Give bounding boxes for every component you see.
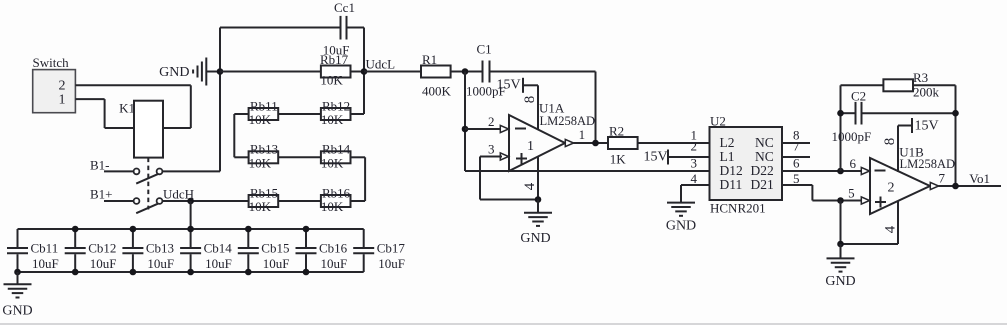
switch blade B1- (136, 174, 158, 184)
U1B output arrow pin 7 (930, 182, 938, 189)
wire left tie Rb11/Rb13 (233, 114, 235, 157)
U1A pin 2 input arrow (500, 125, 508, 132)
svg-text:400K: 400K (422, 84, 452, 99)
ground GND at U1B (840, 244, 842, 258)
svg-text:GND: GND (666, 219, 696, 234)
ground GND top-left (rotated, bars) (205, 58, 207, 86)
wire B1+ stub (104, 200, 134, 202)
U1A pin 3 input arrow (500, 153, 508, 160)
wire U1B pin8 to 15V (898, 125, 912, 127)
wire switch pin1 vertical down (104, 99, 106, 128)
wire row0: node A to Rb17 (220, 71, 321, 73)
junction bottom rail (303, 269, 310, 276)
capacitor Cb15 (247, 229, 249, 247)
wire capacitor bank bottom rail (18, 271, 364, 273)
svg-text:B1+: B1+ (90, 187, 113, 202)
wire switch pin1 horizontal (75, 98, 104, 100)
junction U1B non-inverting node (837, 197, 844, 204)
svg-text:15V: 15V (644, 150, 668, 165)
wire C2 left (841, 112, 855, 114)
wire U2 pin 6 to U1B pin 6 (782, 170, 862, 172)
svg-text:K1: K1 (119, 101, 135, 116)
wire Rb16 to right tie (351, 200, 366, 202)
wire right tie Rb14/Rb16 (364, 157, 366, 201)
svg-text:4: 4 (883, 225, 899, 233)
resistor Rb12 (321, 108, 351, 120)
wire Cc1 right (348, 27, 365, 29)
capacitor Cb11 (17, 229, 19, 247)
wire U1A pin 3 (480, 156, 502, 158)
wire R2 to U2 pin 1 (638, 142, 710, 144)
resistor R3 (883, 79, 913, 91)
wire B1+ to Rb15 (through UdcH) (162, 200, 248, 202)
svg-text:7: 7 (939, 171, 946, 186)
wire C2 right (863, 112, 956, 114)
svg-text:10K: 10K (321, 156, 344, 171)
svg-text:NC: NC (755, 149, 774, 164)
U1A minus sign (515, 128, 526, 130)
wire Rb13 to Rb14 (278, 156, 321, 158)
wire Rb11 to Rb12 (278, 113, 321, 115)
svg-text:2: 2 (488, 114, 495, 129)
junction node UdcL (361, 68, 368, 75)
switch contact B1- right circle (157, 169, 163, 175)
wire R3 to output column (912, 84, 955, 86)
svg-text:UdcL: UdcL (366, 57, 396, 72)
junction top rail (130, 226, 137, 233)
wire R1 to node B (451, 71, 482, 73)
wire C1 right to feedback column (491, 71, 596, 73)
U1B minus sign (875, 170, 886, 172)
U1B plus sign (875, 201, 886, 203)
wire Cc1 left (220, 27, 340, 29)
junction bottom rail (187, 269, 194, 276)
wire UdcL column (Cc1 down through UdcL to Rb12 row) (363, 28, 365, 115)
wire U1B plus column (bottom segment) (840, 201, 842, 245)
svg-text:Cb13: Cb13 (146, 241, 174, 256)
svg-text:5: 5 (848, 186, 855, 201)
U1A pin 4 stub (537, 157, 539, 200)
svg-text:Rb17: Rb17 (320, 52, 349, 67)
wire UdcL to R1 (364, 71, 421, 73)
wire GND to node A (206, 71, 220, 73)
switch blade B1+ (136, 203, 158, 213)
svg-text:Rb11: Rb11 (250, 98, 278, 113)
wire Rb12 to UdcL column (351, 113, 365, 115)
junction top rail (72, 226, 79, 233)
svg-text:200k: 200k (913, 85, 940, 100)
svg-text:NC: NC (755, 135, 774, 150)
junction U1B inverting node (837, 168, 844, 175)
svg-text:3: 3 (691, 156, 698, 171)
U1A pin 8 stub (537, 85, 539, 129)
svg-text:4: 4 (522, 182, 538, 190)
wire tie to Rb13 (234, 156, 248, 158)
op-amp U1A triangle (509, 115, 565, 171)
wire U2 pin 5 down (811, 185, 813, 201)
wire to K1 right pin (163, 127, 191, 129)
svg-text:15V: 15V (497, 78, 521, 93)
svg-text:10K: 10K (249, 112, 272, 127)
svg-text:D21: D21 (751, 177, 774, 192)
svg-text:UdcH: UdcH (163, 187, 194, 202)
wire U1A pin3 gnd horizontal (480, 199, 538, 201)
svg-text:1K: 1K (610, 152, 627, 167)
junction node B (R1/C1/U1A- ) (462, 68, 469, 75)
svg-text:B1-: B1- (90, 157, 110, 172)
op-amp U1B triangle (870, 158, 930, 214)
relay coil K1 box (134, 101, 163, 158)
svg-text:2: 2 (888, 181, 895, 196)
wire U1B pin 4 bottom horizontal (841, 243, 899, 245)
capacitor Cb12 (74, 229, 76, 247)
svg-text:8: 8 (522, 96, 538, 104)
svg-text:R2: R2 (609, 124, 624, 139)
U2 pin 7 stub (NC) (782, 156, 810, 158)
U1B pin 8 stub (897, 126, 899, 173)
svg-text:1: 1 (59, 92, 66, 107)
svg-text:GND: GND (159, 65, 189, 80)
junction node UdcH (187, 198, 194, 205)
wire Rb15 to Rb16 (278, 200, 321, 202)
wire B1- to node A column (162, 170, 220, 172)
junction bottom rail (14, 269, 21, 276)
U1B pin 6 input arrow (861, 167, 869, 174)
svg-text:Cb17: Cb17 (377, 241, 406, 256)
svg-text:10K: 10K (320, 73, 343, 88)
switch SW1 box (33, 70, 76, 113)
U1A plus sign (516, 158, 527, 160)
ground GND bottom-left (17, 272, 19, 284)
wire Rb14 right corner (351, 156, 366, 158)
wire capacitor bank top rail (18, 228, 364, 230)
junction top rail (303, 226, 310, 233)
wire tie to Rb11 (234, 113, 248, 115)
svg-text:2: 2 (691, 139, 698, 154)
power +15V symbol (U1B pin 8) (911, 118, 913, 133)
capacitor C1 (482, 61, 484, 83)
svg-text:L2: L2 (720, 135, 735, 150)
wire inverting net to U2 pin 3 (long horizontal) (465, 170, 710, 172)
U1A output arrow pin 1 (565, 139, 573, 146)
wire feedback top to R3 (841, 84, 884, 86)
ground GND at U2 pin 4 (680, 185, 682, 203)
svg-text:10uF: 10uF (263, 256, 290, 271)
junction U1B ground node (837, 241, 844, 248)
svg-text:1: 1 (527, 139, 534, 154)
junction C2 left node (837, 110, 844, 117)
svg-text:7: 7 (793, 139, 800, 154)
capacitor Cb16 (305, 229, 307, 247)
svg-text:4: 4 (691, 171, 698, 186)
switch contact B1+ left circle (134, 198, 140, 204)
wire Rb17 to node UdcL (351, 71, 365, 73)
wire UdcH down to capacitor bank rail (190, 201, 192, 229)
capacitor Cb17 (363, 229, 365, 247)
wire U1B inverting column (top segment) (840, 85, 842, 171)
U1B pin 5 input arrow (861, 197, 869, 204)
resistor Rb17 (321, 66, 351, 78)
junction top rail (245, 226, 252, 233)
junction top rail (187, 226, 194, 233)
wire U1A pin3 down (479, 157, 481, 200)
junction U1A pin2 branch (462, 126, 469, 133)
svg-text:10uF: 10uF (147, 256, 174, 271)
svg-text:R3: R3 (913, 70, 928, 85)
wire feedback column down to U1A output (595, 72, 597, 144)
svg-text:HCNR201: HCNR201 (710, 201, 766, 216)
junction Vo1 feedback node (952, 183, 959, 190)
svg-text:10K: 10K (249, 199, 272, 214)
wire node A column (Cc1 top down to B1- row) (219, 28, 221, 172)
svg-text:5: 5 (793, 171, 800, 186)
resistor Rb15 (249, 195, 279, 207)
wire switch pin2 vertical down (190, 85, 192, 128)
svg-text:Vo1: Vo1 (969, 171, 990, 186)
svg-text:LM258AD: LM258AD (900, 157, 956, 171)
svg-text:10uF: 10uF (32, 256, 59, 271)
svg-text:GND: GND (825, 274, 855, 289)
svg-text:Cb12: Cb12 (88, 241, 116, 256)
wire to K1 left pin (105, 127, 134, 129)
wire U2 pin 5 horizontal (782, 184, 812, 186)
svg-text:L1: L1 (720, 149, 735, 164)
wire U2 pin 4 horizontal (681, 184, 710, 186)
switch contact B1- left circle (134, 169, 140, 175)
svg-text:Rb15: Rb15 (250, 185, 278, 200)
svg-text:8: 8 (882, 138, 898, 146)
svg-text:10uF: 10uF (90, 256, 117, 271)
svg-text:D12: D12 (720, 163, 743, 178)
svg-text:10K: 10K (321, 112, 344, 127)
svg-text:Rb12: Rb12 (322, 98, 350, 113)
resistor Rb14 (321, 151, 351, 163)
svg-text:C1: C1 (477, 42, 492, 57)
junction bottom rail (130, 269, 137, 276)
svg-text:10uF: 10uF (205, 256, 232, 271)
svg-text:3: 3 (488, 142, 495, 157)
svg-text:1: 1 (579, 127, 586, 142)
bottom page border (0, 323, 1007, 325)
junction bottom rail (245, 269, 252, 276)
junction C2 right node (952, 110, 959, 117)
capacitor Cb13 (132, 229, 134, 247)
resistor R1 (421, 66, 451, 78)
svg-text:D22: D22 (751, 163, 774, 178)
svg-text:2: 2 (59, 79, 66, 94)
wire output column down to Vo1 node (955, 85, 957, 186)
switch contact B1+ right circle (157, 198, 163, 204)
capacitor Cb14 (190, 229, 192, 247)
svg-text:1000pF: 1000pF (832, 129, 872, 144)
capacitor C2 (855, 102, 857, 125)
svg-text:15V: 15V (915, 119, 939, 134)
svg-text:Cc1: Cc1 (334, 0, 355, 15)
wire 15V to pin8 stub (523, 84, 538, 86)
svg-text:R1: R1 (422, 52, 437, 67)
svg-text:10K: 10K (249, 156, 272, 171)
svg-text:10K: 10K (321, 199, 344, 214)
svg-text:6: 6 (850, 156, 857, 171)
junction bottom rail (72, 269, 79, 276)
wire B1- stub (104, 170, 134, 172)
junction U1A output node (592, 140, 599, 147)
svg-text:10uF: 10uF (378, 256, 405, 271)
wire U1B output to Vo1 (939, 185, 1002, 187)
wire U1A output to R2 (574, 142, 609, 144)
resistor R2 (608, 137, 638, 149)
capacitor Cc1 (340, 16, 342, 40)
svg-text:Switch: Switch (33, 55, 70, 70)
dashed mechanical link from K1 to contacts (147, 158, 149, 210)
svg-text:10uF: 10uF (321, 256, 348, 271)
ground GND at U1A (537, 200, 539, 213)
svg-text:GND: GND (2, 304, 32, 319)
svg-text:C2: C2 (851, 89, 866, 104)
svg-text:GND: GND (520, 231, 550, 246)
svg-text:Rb16: Rb16 (322, 185, 351, 200)
wire 15V to U2 pin 2 (668, 156, 710, 158)
svg-text:Cb16: Cb16 (319, 241, 348, 256)
U1B pin 4 stub (897, 201, 899, 244)
junction node A (217, 68, 224, 75)
U2 pin 8 stub (NC) (782, 142, 810, 144)
wire node B down to inverting net (464, 72, 466, 172)
resistor Rb13 (249, 151, 279, 163)
wire U2 pin5 to U1B pin 5 (812, 200, 862, 202)
junction U1A ground node (535, 196, 542, 203)
svg-text:Cb11: Cb11 (31, 241, 59, 256)
wire to U1A pin 2 (465, 128, 502, 130)
svg-text:U2: U2 (710, 114, 726, 129)
resistor Rb16 (321, 195, 351, 207)
svg-text:D11: D11 (720, 177, 743, 192)
svg-text:Cb14: Cb14 (204, 241, 233, 256)
svg-text:LM258AD: LM258AD (540, 114, 596, 128)
svg-text:Rb14: Rb14 (322, 142, 351, 157)
svg-text:Cb15: Cb15 (261, 241, 289, 256)
resistor Rb11 (249, 108, 279, 120)
optocoupler U2 box (710, 127, 783, 200)
wire switch pin2 to K1 right (horizontal) (75, 84, 190, 86)
svg-text:Rb13: Rb13 (250, 142, 278, 157)
